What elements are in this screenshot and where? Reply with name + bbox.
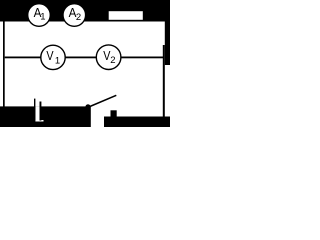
battery gap white slot [35, 106, 39, 121]
switch S fixed contact nub [111, 110, 117, 116]
ammeter A2 [63, 4, 86, 27]
svg-text:1: 1 [55, 56, 60, 67]
svg-text:2: 2 [110, 55, 115, 66]
svg-text:V: V [46, 49, 54, 63]
wire: middle branch between V1 and V2 [65, 57, 96, 59]
wire: middle branch left stub [5, 57, 41, 59]
voltmeter V2 [96, 45, 121, 70]
switch S pivot dot [85, 104, 90, 109]
right wire [163, 45, 165, 117]
right border black block (upper) [165, 21, 170, 65]
left wire [3, 21, 5, 107]
top black band (inverted top wire region) [0, 0, 170, 22]
battery B1 long plate [34, 99, 35, 121]
switch S lever [88, 95, 117, 107]
svg-text:1: 1 [40, 12, 45, 23]
bottom-left black block (inverted bottom wire region, left of switch gap) [0, 106, 91, 127]
svg-text:2: 2 [76, 12, 81, 23]
battery B1 short plate [40, 102, 42, 121]
ammeter A1 [28, 4, 51, 27]
bottom-right black block (right of switch gap) [104, 117, 170, 128]
resistor R [108, 11, 144, 21]
wire: middle branch right stub [121, 57, 164, 59]
voltmeter V1 [41, 45, 65, 69]
battery white strip under plates [40, 120, 44, 122]
